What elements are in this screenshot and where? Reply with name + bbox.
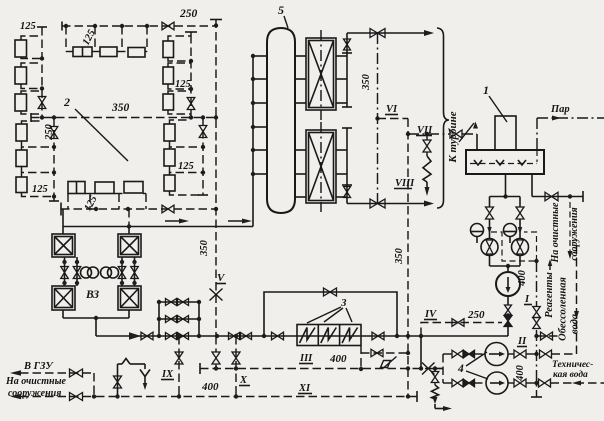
heater coils — [300, 328, 316, 344]
svg-text:350: 350 — [111, 102, 130, 114]
control valve left (circle) — [481, 239, 498, 256]
bypass manifold verticals — [158, 302, 160, 336]
wire: long vertical 350 line x=408 — [407, 119, 409, 397]
svg-text:I: I — [524, 294, 530, 305]
svg-text:III: III — [299, 353, 313, 364]
svg-text:XI: XI — [298, 383, 311, 394]
boiler drum 5 (capsule) — [267, 28, 295, 213]
wire to GZU y=373 — [20, 372, 94, 374]
hanger x=236 — [234, 334, 238, 338]
wires RU filters to riser — [168, 36, 191, 41]
check valve on main line — [129, 332, 141, 339]
wire VI branch — [375, 116, 379, 120]
surface heater 3 shell — [297, 325, 361, 346]
svg-text:Пар: Пар — [550, 104, 570, 115]
valves left train — [61, 267, 69, 279]
filter row B — [100, 47, 117, 57]
wires filters LL to riser — [22, 118, 43, 125]
deaerator tank — [466, 150, 544, 174]
main line turns up into pump discharge — [507, 335, 508, 337]
junction dots on top header — [64, 24, 68, 28]
valve IX — [175, 352, 183, 364]
flow arrow left branch — [487, 227, 492, 234]
svg-text:IV: IV — [424, 309, 437, 320]
stubs drum to lower block — [295, 149, 306, 151]
filter LL3 — [16, 177, 27, 193]
bypass valve — [324, 288, 337, 296]
svg-text:II: II — [517, 336, 527, 347]
manifold row1 valve pair — [166, 299, 177, 306]
svg-text:250: 250 — [467, 309, 485, 321]
svg-text:VIII: VIII — [395, 178, 415, 189]
filter L3 — [15, 94, 27, 111]
svg-text:Реагенты: Реагенты — [544, 272, 555, 318]
filter RL3 — [164, 175, 175, 191]
drain hanger after cross — [434, 369, 436, 373]
riser wires from top header to filter row — [65, 26, 67, 52]
centerline lower block — [320, 122, 322, 212]
svg-text:125: 125 — [20, 21, 36, 32]
junction bypass right — [395, 334, 399, 338]
wire VIII drain hanger — [426, 134, 428, 140]
svg-text:К турбине: К турбине — [447, 111, 459, 163]
pump 4b — [486, 372, 508, 394]
valve heater drain — [371, 349, 383, 357]
superheater block lower — [306, 130, 336, 203]
filter L2 — [15, 67, 27, 84]
svg-text:250: 250 — [179, 8, 198, 20]
filter LL1 — [16, 124, 27, 141]
svg-text:350: 350 — [394, 247, 405, 265]
normally-closed cross marker on line V — [210, 289, 223, 301]
svg-text:вода: вода — [570, 314, 581, 334]
arrow desalted water — [574, 311, 579, 319]
node: left lower riser x=54 — [53, 118, 55, 202]
throttle zigzag drain — [432, 385, 439, 399]
centerline upper block — [320, 30, 322, 120]
reagents arrow — [549, 262, 551, 270]
spray nozzles inside tank — [474, 160, 482, 165]
left suction branch — [489, 197, 491, 208]
valve tank drain — [545, 192, 558, 201]
blower circles left — [81, 267, 92, 278]
leader wire for label 2 — [75, 109, 128, 161]
risers filter bottom row — [67, 194, 69, 210]
flow arrow on feed wire — [165, 220, 185, 222]
node: header 350, y=117.5 — [31, 117, 216, 119]
funnel symbol — [144, 364, 146, 369]
junction dots left lower riser — [52, 145, 56, 149]
downcomer wire x=253 with stub dots — [252, 56, 254, 227]
lower block right collector — [346, 128, 348, 204]
wires filters L to riser — [21, 36, 42, 40]
leaders label 4 — [466, 352, 487, 366]
wire to treatment y=396.5 — [20, 396, 96, 398]
steam main upper to turbine y=33 — [347, 32, 425, 34]
dots right lower riser — [201, 145, 205, 149]
flow arrow right branch — [518, 227, 523, 234]
valve pair after line V junction — [229, 333, 240, 340]
valve branch II — [541, 332, 553, 340]
valve heater inlet — [272, 332, 284, 340]
wires converge to feed pump — [489, 256, 491, 267]
closed-valve cross on line X — [422, 363, 435, 375]
svg-text:кая вода: кая вода — [553, 369, 588, 380]
svg-text:400: 400 — [517, 269, 528, 287]
drop wire to main condensate line — [95, 318, 97, 336]
wire line X y=368.5 — [200, 368, 443, 370]
pump row 1 wire y=354 — [443, 353, 452, 355]
filter RU3 — [163, 94, 174, 110]
wire riser x=129 header to feed wire — [128, 209, 130, 227]
svg-text:125: 125 — [175, 79, 191, 90]
svg-text:4: 4 — [457, 363, 464, 375]
drain arrow down — [433, 397, 438, 404]
valve IV branch — [452, 319, 464, 327]
right suction branch — [519, 197, 521, 208]
flow arrow 2 on feed wire — [228, 220, 248, 222]
blower circles right — [101, 267, 112, 278]
arrow VIII drain — [425, 187, 430, 196]
filter bottom A (double cell) — [68, 182, 85, 194]
hanger IX — [177, 334, 181, 338]
junction dots bottom header — [94, 207, 98, 211]
valves right train — [118, 267, 126, 279]
filter LL2 — [16, 150, 27, 167]
stubs to top sections — [62, 227, 64, 235]
impulse wire box (dashed) — [491, 232, 537, 261]
filter row C — [128, 48, 145, 58]
pump 4a — [485, 343, 508, 366]
wire: steam crossover x=377.5 (350) — [377, 33, 379, 204]
valve technical water 2 — [539, 379, 551, 387]
node: left top riser line x=42 — [41, 27, 43, 118]
valve on left lower riser — [50, 127, 58, 139]
valve upper collector — [344, 39, 351, 50]
svg-text:2: 2 — [63, 95, 70, 109]
pump row 2 wire y=383 — [443, 382, 452, 384]
filter RL2 — [164, 149, 175, 166]
reagents line x=536 — [536, 261, 538, 306]
valve after check — [141, 332, 153, 340]
valves reagents line — [533, 307, 541, 318]
valve on top header (250 line) — [162, 22, 174, 30]
feed wire from economizer to downcomer (y=226.5) — [63, 226, 253, 228]
valve right suction — [516, 207, 524, 219]
wire feed into deaerator head — [462, 133, 477, 135]
valve pump1 discharge — [508, 353, 514, 355]
wire steam outlet y=118 — [537, 117, 604, 119]
filter RU2 — [163, 67, 174, 84]
svg-text:VI: VI — [386, 104, 398, 115]
valves pump2 suction — [452, 379, 463, 387]
hanger V to line X — [215, 336, 217, 352]
filter RL1 — [164, 124, 175, 141]
filter RU1 — [163, 41, 174, 58]
valve VIII hanger — [423, 140, 431, 152]
control valve right (circle) — [512, 239, 529, 256]
svg-text:400: 400 — [201, 381, 219, 393]
tank drain wire right — [531, 174, 533, 197]
gauge instrument right — [504, 224, 517, 237]
manifold row2 valve pair — [166, 316, 177, 323]
heater 3 bypass wire — [264, 292, 397, 336]
junction dot VII/VIII — [425, 132, 429, 136]
pump suction header y=196.5 — [490, 196, 521, 198]
valve on deaerator feed — [450, 130, 462, 138]
branch II stub — [534, 334, 538, 338]
manifold row3 valve pair (on main line) — [166, 333, 177, 340]
svg-text:IX: IX — [161, 369, 174, 380]
valves pump1 suction — [452, 350, 463, 358]
arrow technical water (incoming) — [572, 381, 581, 386]
svg-text:400: 400 — [329, 353, 347, 365]
valve left suction — [486, 207, 494, 219]
steam main lower to turbine y=203.5 — [347, 203, 425, 205]
svg-text:На очистные: На очистные — [5, 376, 67, 387]
svg-text:X: X — [239, 375, 248, 386]
wires RL filters — [170, 118, 190, 125]
filter bottom B — [95, 182, 114, 194]
wire IV branch 250 — [421, 323, 448, 337]
economizer section top-left — [52, 234, 75, 257]
svg-text:125: 125 — [178, 161, 194, 172]
svg-text:1: 1 — [483, 83, 489, 97]
svg-text:сооружения: сооружения — [569, 207, 580, 260]
heater drain branch wire — [360, 346, 362, 370]
valve pump2 discharge — [508, 382, 514, 384]
valve lower collector — [344, 187, 351, 198]
valve on bottom header — [162, 205, 174, 213]
stubs downcomer to drum — [253, 55, 267, 57]
node: bottom collector header y=209 — [61, 208, 216, 210]
superheater block upper — [306, 38, 336, 110]
gauge instrument left — [471, 224, 484, 237]
control-valve slash on feed — [459, 123, 474, 142]
svg-text:В ГЗУ: В ГЗУ — [23, 361, 54, 372]
svg-text:350: 350 — [199, 239, 210, 257]
economizer section top-right — [118, 234, 141, 257]
corner wire GZU — [93, 373, 95, 397]
valve treatment wire — [70, 393, 83, 401]
wire from cross to pumps — [435, 368, 443, 370]
pump discharge wire — [507, 296, 509, 305]
wire main drop to X crossing — [420, 336, 422, 369]
economizer section bottom-left — [52, 286, 75, 310]
upper block right collector — [346, 33, 348, 107]
valve right upper riser — [187, 98, 195, 110]
svg-text:Обессоленная: Обессоленная — [558, 277, 569, 341]
wire VII branch y=134 to deaerator — [406, 132, 410, 136]
svg-text:Техничес-: Техничес- — [552, 360, 593, 370]
main condensate line y=336 — [96, 335, 507, 337]
filter L1 — [15, 40, 27, 57]
svg-text:400: 400 — [515, 364, 526, 382]
node: main right edge line of filter block x=216 (line V) — [215, 20, 217, 337]
junction bypass left — [262, 334, 266, 338]
junction dots left riser — [40, 56, 44, 60]
node: right lower riser x=203 — [202, 118, 204, 196]
main steam valve lower — [370, 199, 385, 208]
node: top distribution header 250, y=26 — [62, 25, 216, 27]
valve pump discharge lower (solid) — [504, 316, 512, 327]
manifold row 2 wire — [159, 318, 199, 320]
filter bottom C — [124, 182, 143, 194]
junction line X / 350 line — [406, 366, 410, 370]
economizer bottom header — [62, 310, 64, 318]
junction dots on 350 header — [40, 115, 44, 119]
wire filter header to economizer inlet x=63 — [62, 209, 64, 227]
feed pump (3rd) circle — [496, 272, 520, 296]
wire line XI y=396.5 — [96, 396, 417, 398]
junction main/IV — [419, 334, 423, 338]
valve right lower riser — [199, 126, 207, 138]
svg-text:5: 5 — [278, 3, 284, 17]
svg-text:125: 125 — [32, 184, 48, 195]
svg-text:V: V — [217, 272, 226, 284]
throttle zigzag VIII — [423, 156, 431, 182]
brace K turbine — [437, 28, 449, 208]
main steam valve upper — [370, 29, 385, 38]
economizer section bottom-right — [118, 286, 141, 310]
steam distributor inside tank (dashed) — [470, 163, 537, 165]
manifold row 1 wire — [159, 301, 199, 303]
wire steam down into tank — [536, 118, 538, 150]
drain arrow right — [443, 406, 452, 411]
label d (drain) — [384, 357, 397, 368]
valve technical water 1 — [540, 350, 552, 358]
svg-text:ВЗ: ВЗ — [85, 289, 99, 301]
leader wire label 1 — [489, 96, 507, 122]
svg-text:350: 350 — [361, 73, 372, 91]
valve pump discharge upper — [505, 305, 512, 315]
stubs drum to upper block — [295, 55, 306, 57]
leaders label 3 — [307, 307, 341, 323]
drain funnel assembly — [118, 363, 123, 365]
wire tank bottom to pump header — [505, 174, 507, 197]
node: right upper riser x=191 — [190, 35, 192, 118]
desalted water wire x=576.5 — [576, 240, 578, 354]
junction main/350 line — [406, 334, 410, 338]
stubs bottom row — [67, 193, 69, 196]
wire to treatment facilities (right) — [569, 202, 571, 252]
dots right upper riser — [189, 59, 193, 63]
valve GZU wire — [70, 369, 83, 377]
filter 125 row A (double cell) — [73, 47, 92, 57]
leader wire label 5 — [284, 16, 288, 28]
valve funnel wire — [114, 376, 122, 388]
svg-text:На очистные: На очистные — [550, 202, 561, 264]
valve on left riser — [38, 97, 46, 109]
wire stubs joining risers to filters — [66, 51, 73, 53]
valve train wires between sections — [64, 257, 66, 286]
deaerator column 1 — [495, 116, 516, 150]
valve heater outlet — [372, 332, 384, 340]
